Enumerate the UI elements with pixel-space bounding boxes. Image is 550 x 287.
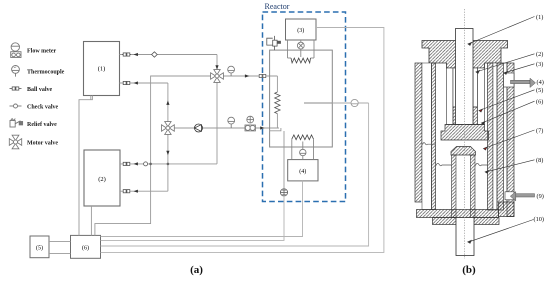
gray inlet arrow (4): [511, 78, 536, 87]
motor valve upper: [211, 70, 224, 83]
legend motor valve icon: [9, 135, 21, 149]
check valve diamond on box1 top line: [152, 52, 158, 57]
chamber level squiggle right: [476, 163, 488, 165]
flow arrow right on pump line: [260, 126, 264, 129]
ball valve on box1 second line: [123, 81, 130, 84]
inline thermocouple right of reactor: [351, 99, 358, 106]
left outer wall: [415, 63, 422, 202]
legend thermocouple icon: [12, 66, 20, 77]
leader line 7: [483, 130, 534, 150]
right outer gap: [504, 63, 508, 202]
chamber level squiggle left: [436, 163, 452, 165]
leader line 3: [504, 64, 535, 75]
wire drain to bus2: [101, 196, 285, 240]
svg-text:(b): (b): [462, 264, 476, 276]
right wall notch for arrow 9: [505, 192, 514, 200]
ball valve on box2 first line: [123, 162, 130, 165]
leader line 5: [479, 90, 535, 112]
wire upper motor valve bottom vertical: [216, 82, 218, 164]
legend check valve icon: [10, 104, 22, 108]
svg-text:Relief valve: Relief valve: [27, 122, 57, 128]
bottom loop thermocouple: [300, 149, 306, 155]
svg-text:(3): (3): [536, 61, 543, 68]
svg-text:(8): (8): [536, 157, 543, 164]
coil outlet jog: [276, 114, 278, 128]
leader line 8: [485, 160, 534, 174]
leader line 2: [476, 54, 535, 74]
left mid wall: [432, 63, 436, 210]
wire box2 bottom to box6 top: [90, 206, 92, 235]
wire from box1 bottom to box6 top: [79, 96, 92, 236]
svg-text:(1): (1): [98, 66, 106, 73]
check valve circle on box2 first line: [144, 162, 148, 166]
leader line 1: [468, 17, 535, 46]
reactor dashed boundary: [263, 12, 346, 202]
wire box5 to box6 line 1: [49, 240, 71, 242]
svg-text:Flow meter: Flow meter: [27, 48, 56, 54]
bottom heater zigzag: [292, 135, 314, 140]
motor valve lower: [162, 122, 175, 135]
box3 heater loop stubs: [288, 57, 292, 59]
wire box1 second port line: [120, 82, 168, 84]
svg-text:Motor valve: Motor valve: [27, 140, 58, 146]
legend relief valve icon: [10, 119, 23, 127]
flow arrow down into upper motor valve: [215, 65, 218, 69]
svg-text:(5): (5): [536, 87, 543, 94]
flow arrow down below lower motor valve: [166, 151, 169, 155]
wire vertical into upper motor valve: [216, 55, 218, 71]
box3 flow meter: [297, 42, 304, 49]
bottom heater loop right arm: [313, 139, 315, 160]
wire box4 bottom to bus1: [101, 181, 303, 237]
svg-text:(2): (2): [98, 176, 106, 183]
lid (top flange): [422, 41, 508, 69]
svg-text:(a): (a): [190, 264, 203, 276]
legend flow meter icon: [11, 43, 21, 58]
box (3): [286, 19, 317, 40]
box (6): [71, 235, 101, 258]
wire box1 top outlet line: [120, 54, 218, 56]
centerline: [464, 9, 466, 259]
flow arrow left on box1 top line: [134, 53, 138, 56]
right outer wall: [507, 63, 514, 217]
bottom loop stem lower: [302, 156, 304, 160]
inner tube right wall upper: [473, 68, 478, 107]
line from vessel to thermocouple: [332, 102, 368, 104]
svg-text:Reactor: Reactor: [265, 2, 290, 11]
vessel interior line: [304, 102, 332, 104]
bottom right wall block: [499, 202, 515, 217]
right wall notch for arrow 4: [504, 73, 515, 87]
inner tube right gap: [478, 68, 485, 125]
vessel bottom-left shelf: [270, 128, 281, 131]
drain valve symbol: [280, 189, 287, 196]
box1 bottom port tab: [90, 96, 92, 100]
svg-text:(5): (5): [36, 244, 43, 251]
svg-text:(2): (2): [536, 51, 543, 58]
svg-text:Ball valve: Ball valve: [27, 87, 53, 93]
inner tube left gap: [447, 68, 454, 125]
ball valve on box2 second line: [123, 190, 130, 193]
box (2): [84, 150, 120, 206]
part b labels: [534, 14, 545, 223]
wire pump line: [175, 127, 280, 129]
svg-text:Check valve: Check valve: [27, 104, 59, 110]
wire upper motor valve left port: [95, 76, 211, 235]
bottom flange layer 1: [417, 210, 499, 218]
gray inlet arrow (9): [510, 192, 534, 201]
leader line 10: [468, 220, 534, 244]
svg-text:(1): (1): [536, 14, 543, 21]
ball valve on reactor boundary feed: [259, 74, 266, 77]
svg-text:(4): (4): [537, 79, 544, 86]
flow arrow left on box2 second line: [134, 190, 138, 193]
box3 heater loop left arm: [287, 40, 289, 58]
drain line from vessel bottom: [283, 131, 285, 189]
preheat coil zigzag: [275, 92, 280, 114]
bottom hat plug: [451, 147, 476, 156]
inner tube right wall lower: [473, 107, 478, 125]
wire box3 right to bus4: [101, 28, 384, 253]
right liner wall: [488, 63, 494, 210]
inner tube left wall lower: [453, 107, 456, 125]
svg-text:Thermocouple: Thermocouple: [27, 69, 65, 75]
thermocouple on feed line: [228, 66, 235, 76]
flow arrow left on box1 second line: [134, 81, 138, 84]
svg-text:(10): (10): [534, 216, 545, 223]
svg-text:(3): (3): [297, 27, 304, 34]
bottom flange layer 2 left: [433, 218, 457, 225]
thermocouple on pump line: [228, 117, 235, 128]
junction dot A: [149, 163, 152, 166]
svg-text:(4): (4): [299, 168, 306, 175]
legend ball valve icon: [10, 87, 22, 90]
wire vertical B: [167, 83, 169, 191]
wire thermocouple down to bus3: [101, 103, 369, 246]
leader line 6: [481, 101, 534, 124]
ball valve on box1 top line: [122, 53, 131, 56]
box3 flow meter stem: [300, 40, 302, 57]
svg-text:(6): (6): [82, 244, 89, 251]
jacket level squiggle left: [423, 143, 436, 145]
bottom outlet pipe: [456, 218, 474, 256]
box (4): [288, 160, 318, 181]
stirrer shaft: [456, 29, 474, 125]
wire box5 to box6 line 2: [49, 253, 71, 255]
left gap: [422, 63, 432, 210]
bottom heater loop left arm: [291, 139, 293, 160]
cup block: [441, 125, 489, 141]
wire box2 first port line: [120, 163, 217, 165]
right wall 2: [497, 63, 504, 210]
box3 heater zigzag: [291, 58, 311, 63]
svg-text:(9): (9): [537, 193, 544, 200]
svg-text:(7): (7): [536, 127, 543, 134]
junction dot B: [167, 163, 170, 166]
feed line inside reactor down to coil: [276, 76, 278, 92]
box3 heater loop right arm: [313, 40, 315, 58]
flow meter on pump line: [245, 116, 255, 131]
wire feed line to reactor: [224, 75, 278, 77]
box (1): [84, 42, 120, 96]
reaction vessel: [270, 50, 333, 147]
right gap: [493, 63, 497, 210]
bottom tube right wall: [471, 155, 476, 218]
wire box2 second port line: [120, 190, 168, 192]
bottom loop stem upper: [302, 142, 304, 150]
flow arrow left on box2 first line: [134, 162, 138, 165]
flow arrow right on feed line: [245, 74, 249, 77]
relief valve on vessel top: [267, 36, 281, 50]
box (5): [30, 236, 49, 258]
inner tube left wall upper: [453, 68, 456, 107]
bottom tube left wall: [452, 155, 457, 218]
pump: [195, 124, 203, 132]
bottom flange layer 2 right: [474, 218, 499, 225]
flow arrow up on vertical B: [166, 101, 169, 105]
svg-text:(6): (6): [536, 99, 543, 106]
